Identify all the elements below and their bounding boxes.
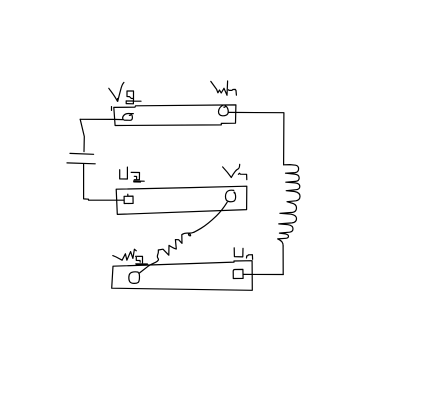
box 1 (top tube, terminals Vg / W) xyxy=(114,105,236,126)
wire: V circle down to resistor xyxy=(194,202,227,232)
box 3 (bottom tube, terminals Wg / U) xyxy=(112,261,253,291)
wire: capacitor to box 2 left terminal xyxy=(84,164,124,200)
terminal Ug (square in box 2, left) xyxy=(124,194,133,203)
box 1 left edge tick xyxy=(111,107,113,111)
label Wg (above box 3 left) xyxy=(113,249,137,260)
label Vg (above box 1 left) xyxy=(109,82,124,101)
resistor scribble curl xyxy=(188,233,191,236)
terminal Vg (circle in box 1, left) xyxy=(123,113,134,120)
terminal W (circle in box 1, right) xyxy=(218,105,228,115)
wire: box 3 right lead xyxy=(243,273,283,275)
terminal V (circle in box 2, right) xyxy=(225,190,235,201)
wire: box1 left lead xyxy=(80,118,122,120)
label W (above box 1 right) xyxy=(211,81,228,95)
label Ug (above box 2 left) xyxy=(120,167,128,179)
capacitor C1 bottom plate xyxy=(67,162,95,165)
label V (above box 2 right) xyxy=(223,164,240,177)
box 2 (middle tube, terminals Ug / V) xyxy=(116,186,247,214)
capacitor C1 top plate xyxy=(70,152,94,155)
resistor R (step-tooth scribble between box 2 and box 3) xyxy=(158,232,193,255)
wire: box 1 right lead to inductor xyxy=(228,112,284,164)
label U (above box 3 right) xyxy=(234,248,243,257)
wire: resistor S-hook down to box 3 left terminal xyxy=(140,250,159,273)
wire: down to capacitor xyxy=(80,119,84,151)
wire: inductor bottom to box 3 xyxy=(282,246,284,275)
inductor L (coil on right side) xyxy=(278,165,300,246)
terminal Wg (circle in box 3, left) xyxy=(129,272,140,284)
terminal U (square in box 3, right) xyxy=(233,269,243,278)
